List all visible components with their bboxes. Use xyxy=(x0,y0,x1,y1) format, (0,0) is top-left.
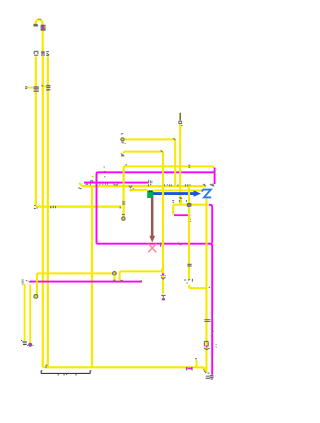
blue arrow wire xyxy=(153,192,194,195)
wire tap to green junction y190 xyxy=(131,189,148,191)
ground bar bottom-left xyxy=(41,371,90,374)
ring on y273.4 wire at x114 xyxy=(113,272,117,276)
magenta bus lower y243.7 xyxy=(97,244,213,375)
corner feet at bus right end xyxy=(204,371,209,373)
magenta wire upper y172.3 xyxy=(97,172,215,243)
blue Z symbol xyxy=(202,190,212,198)
maroon arrowhead xyxy=(149,236,155,243)
wire battery feed arc top-left xyxy=(36,19,43,25)
text marks below bus xyxy=(180,200,187,202)
yellow wire corner x189 to x207 at y288.2 xyxy=(189,285,206,289)
bus left tail xyxy=(79,183,83,186)
upper wire U1 y139.4 xyxy=(124,139,175,185)
pin number text marks on wire A horizontal xyxy=(34,205,38,208)
yellow stub x181 bus to y204.7 xyxy=(180,200,182,204)
fuse F1 body with seal xyxy=(41,25,46,31)
small marks above magenta y172 xyxy=(104,167,106,171)
green connector block xyxy=(147,191,153,198)
splice marks on bus xyxy=(86,182,88,185)
U2 end tick xyxy=(161,150,163,151)
stub x196.5 above bottom bus xyxy=(196,360,198,367)
maroon wire down from green xyxy=(151,198,154,237)
terminal at bottom of x163 xyxy=(161,295,165,297)
wire left column A x36 xyxy=(36,57,122,207)
main yellow bus y186 xyxy=(82,185,206,187)
switch contact on x189 bottom xyxy=(184,279,192,282)
connector with seal pin2 xyxy=(28,343,32,347)
ring terminal at bottom of x123.5 xyxy=(122,213,125,215)
magenta end connector bottom right xyxy=(210,376,214,379)
yellow wire x163 from bus down to terminal xyxy=(162,187,164,294)
connector pin P3 right xyxy=(46,52,49,56)
yellow drop from ring to magenta bus xyxy=(114,275,116,281)
bottom-left connector S1 xyxy=(21,280,23,284)
yellow wire x180 down xyxy=(179,124,181,204)
wire from green to Z y190.5 xyxy=(153,190,204,192)
wire S1 pin2 down xyxy=(29,285,31,343)
bottom yellow bus y367.3 xyxy=(43,364,207,372)
yellow wire x123.6 from U3 corner down to terminal xyxy=(122,168,124,217)
small component on x123.5 wire xyxy=(122,202,125,204)
pink X mark xyxy=(148,244,156,253)
yellow wire x189 from bus down xyxy=(188,187,190,280)
junction tick at end of y271.4 wire xyxy=(161,268,163,270)
U1 ring terminal xyxy=(121,138,124,141)
splice on magenta bus xyxy=(161,243,164,247)
U1 end tick xyxy=(173,138,175,140)
inline connector on wire C y87 xyxy=(46,86,50,90)
stub wire to left edge y87.5 xyxy=(26,87,34,89)
inline connector on wire A y88 xyxy=(34,87,39,91)
wire S1 pin1 down xyxy=(24,284,26,341)
magenta bus bottom-left y281.5 xyxy=(30,281,142,283)
upper wire U2 y151.6 xyxy=(123,152,163,185)
feet at bottom of x207 wire xyxy=(206,376,210,378)
inline connector w/ seal on bottom bus xyxy=(187,367,192,370)
junction tick where A-wire meets xyxy=(119,207,121,209)
connector with seal on x163 wire y274-279 xyxy=(162,273,164,275)
lamp circle at x36.9 bottom xyxy=(34,295,38,299)
connector pin P2 center xyxy=(41,51,44,54)
magenta wire right pair top corner hook xyxy=(209,205,212,243)
relay pin wire x180 top xyxy=(179,113,181,121)
inline connector marks on x207 wire xyxy=(204,320,210,322)
U2 start blob xyxy=(121,154,125,156)
ground terminal pin1 xyxy=(22,342,26,344)
magenta wire y183 xyxy=(84,182,148,184)
junction box on y204.7 wire xyxy=(187,203,191,207)
wire left column C x48 xyxy=(47,57,49,367)
jumper wire B to C connector xyxy=(42,85,46,87)
connector pin P1 left xyxy=(34,51,38,55)
ticks on magenta right wire xyxy=(212,331,214,333)
yellow wire drop x92 from bus to bottom xyxy=(91,187,93,367)
magenta stub y215.2 xyxy=(174,214,189,216)
yellow wire y273.4 corner to lamp xyxy=(37,273,113,294)
U3 corner elbow mark xyxy=(125,164,127,166)
splice V-mark on bus xyxy=(129,186,132,188)
wire from fuse down xyxy=(42,31,44,51)
terminal pad left of arc xyxy=(33,25,38,26)
text 2 on U3 xyxy=(188,165,190,167)
yellow wire y204.7 with corner down at left xyxy=(173,205,206,215)
magenta drop from U3 corner xyxy=(214,168,216,184)
ring terminal on x180 xyxy=(179,121,182,123)
wire left column B x43 xyxy=(42,56,44,366)
inline connector on x189 xyxy=(187,264,191,266)
small text mark near bar left xyxy=(45,365,47,367)
terminal tick at stub end xyxy=(25,87,27,89)
connector with seal on x207 wire y345 xyxy=(204,341,210,349)
upper wire U3 y166.4 xyxy=(124,166,214,168)
yellow wire corner x119.6 up from magenta bus to y271.4 xyxy=(120,271,163,280)
